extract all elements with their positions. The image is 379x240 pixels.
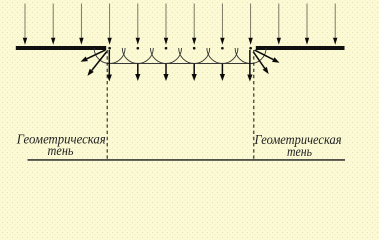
secondary wavelet arc 3 [151,48,182,64]
observation screen line [28,159,346,161]
Huygens secondary source point 4 [193,47,196,50]
secondary wavelet arc 6 [235,48,266,64]
secondary wavelet arc 4 [179,48,210,64]
downward propagation arrow [220,64,225,82]
incident wave arrow 2 [51,4,55,45]
edge downward arrow along shadow boundary [107,50,112,82]
left diffracted arrow (lower) [87,52,106,76]
incident wave arrow 6 [164,4,168,45]
dashed geometric shadow boundary (right) [253,50,255,160]
incident wave arrow 11 [305,4,309,45]
downward propagation arrow [192,64,197,82]
edge downward arrow along shadow boundary [247,50,252,82]
right diffracted arrow (lower) [253,52,269,74]
incident wave arrow 7 [192,4,196,45]
Huygens secondary source point 2 [137,47,140,50]
incident wave arrow 4 [107,4,111,45]
secondary wavelet arc 5 [207,48,238,63]
left barrier (opaque screen) [16,46,106,50]
downward propagation arrow [163,64,168,82]
Huygens secondary source point 1 [108,47,111,50]
incident wave arrow 3 [79,4,83,45]
right diffracted arrow (upper) [255,50,280,63]
dashed geometric shadow boundary (left) [106,50,108,160]
Huygens secondary source point 6 [249,47,252,50]
incident wave arrow 1 [23,4,27,45]
left diffracted arrow (upper) [81,50,106,62]
svg-text:тень: тень [287,145,312,160]
label "Геометрическая тень" (right) [254,133,342,160]
incident wave arrow 12 [333,4,337,45]
secondary wavelet arc 1 [94,48,125,64]
downward propagation arrow [135,64,140,82]
envelope wavefront line across slit [107,63,253,65]
incident wave arrow 5 [136,4,140,45]
incident wave arrow 9 [248,4,252,45]
Huygens secondary source point 3 [165,47,168,50]
Huygens secondary source point 5 [221,47,224,50]
secondary wavelet arc 2 [122,48,153,64]
label "Геометрическая тень" (left) [16,133,106,160]
incident wave arrow 8 [220,4,224,45]
incident wave arrow 10 [277,4,281,45]
right barrier (opaque screen) [256,46,345,50]
svg-text:тень: тень [48,144,74,159]
